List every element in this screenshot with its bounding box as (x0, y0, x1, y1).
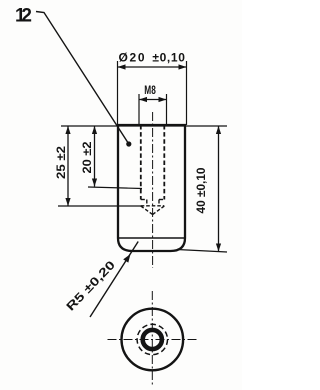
extension lines for Ø20 (118, 61, 187, 125)
part outline front view (118, 125, 185, 251)
dimension 40 ±0,10 text (194, 167, 208, 213)
svg-text:40 ±0,10: 40 ±0,10 (194, 167, 208, 213)
bottom view outer circle (122, 309, 184, 371)
top extension line (61, 125, 227, 127)
dimension Ø20 ±0,10 text (119, 51, 186, 65)
leader line R5 with arrow (90, 242, 138, 318)
hidden drill core lines (147, 200, 159, 207)
extension line bottom for 40 (177, 250, 227, 253)
dimension 20 ±2 text (80, 141, 94, 173)
dimension 40 line with arrows (216, 126, 221, 252)
bottom view horizontal centerline (108, 339, 199, 341)
dimension M8 line with arrows (139, 97, 167, 102)
dimension R5 ±0,20 text (63, 258, 118, 314)
svg-text:Ø20: Ø20 (119, 51, 145, 65)
dimension 25 line with arrows (65, 126, 70, 206)
hidden drill point cone (141, 206, 165, 215)
extension line drill depth 25 (58, 205, 141, 207)
extension line thread depth 20 (88, 187, 142, 189)
leader line from 12 to thread (36, 12, 131, 147)
extension lines for M8 (139, 94, 167, 125)
svg-text:20 ±2: 20 ±2 (80, 141, 94, 173)
centerline front view (152, 112, 154, 268)
dimension Ø20 line with arrows (118, 64, 187, 69)
svg-text:12: 12 (15, 6, 32, 27)
dimension M8 text (144, 83, 156, 97)
bottom view thread circle dashed (137, 324, 167, 354)
item number 12 (15, 6, 32, 27)
hidden thread step at depth (141, 199, 165, 201)
bottom view drill hole bold circle (143, 330, 162, 349)
svg-text:25 ±2: 25 ±2 (54, 146, 68, 179)
hidden thread major lines (141, 125, 165, 200)
svg-text:±0,10: ±0,10 (152, 51, 185, 65)
svg-text:M8: M8 (144, 83, 156, 97)
dimension 25 ±2 text (54, 146, 68, 179)
dimension 20 line with arrows (92, 126, 97, 187)
bottom view vertical centerline (151, 291, 153, 385)
